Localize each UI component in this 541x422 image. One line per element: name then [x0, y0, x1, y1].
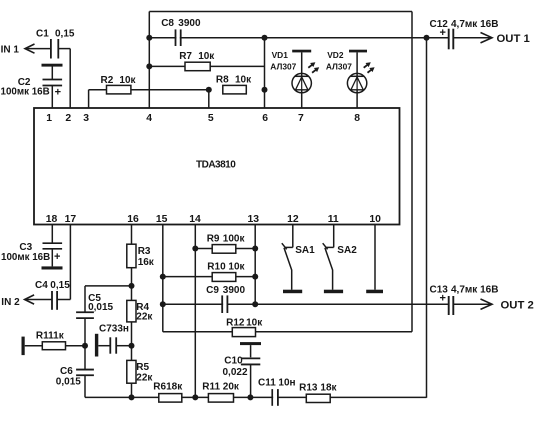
svg-text:4,7мк 16В: 4,7мк 16В — [451, 285, 498, 296]
svg-text:3900: 3900 — [223, 285, 246, 296]
svg-text:R3: R3 — [138, 246, 151, 257]
svg-text:0,015: 0,015 — [88, 302, 113, 313]
svg-text:SA1: SA1 — [295, 245, 315, 256]
svg-text:3: 3 — [83, 113, 89, 124]
svg-text:АЛ307: АЛ307 — [326, 62, 352, 72]
svg-text:17: 17 — [65, 214, 77, 225]
svg-text:16к: 16к — [138, 257, 155, 268]
svg-text:+: + — [55, 87, 61, 99]
svg-text:VD2: VD2 — [327, 50, 344, 60]
svg-text:R5: R5 — [136, 362, 149, 373]
svg-text:R11: R11 — [202, 381, 220, 392]
svg-text:SA2: SA2 — [337, 245, 357, 256]
svg-text:5: 5 — [208, 113, 214, 124]
svg-text:C8: C8 — [161, 18, 174, 29]
svg-text:0,15: 0,15 — [50, 280, 70, 291]
svg-text:R8: R8 — [216, 75, 229, 86]
svg-text:R12: R12 — [226, 318, 245, 329]
svg-text:АЛ307: АЛ307 — [270, 62, 296, 72]
svg-text:IN 1: IN 1 — [1, 44, 20, 55]
svg-text:11: 11 — [328, 214, 339, 225]
svg-text:C11: C11 — [258, 377, 276, 388]
svg-text:100к: 100к — [223, 233, 246, 244]
svg-text:20к: 20к — [223, 381, 240, 392]
svg-text:R10: R10 — [207, 261, 226, 272]
svg-text:R7: R7 — [179, 51, 192, 62]
svg-text:1: 1 — [46, 113, 52, 124]
svg-text:14: 14 — [189, 214, 201, 225]
svg-text:18: 18 — [46, 214, 58, 225]
svg-text:R111к: R111к — [36, 331, 65, 342]
svg-text:22к: 22к — [136, 373, 153, 384]
svg-text:18к: 18к — [320, 382, 337, 393]
svg-text:C4: C4 — [35, 280, 48, 291]
svg-text:3900: 3900 — [178, 18, 201, 29]
svg-text:4,7мк 16В: 4,7мк 16В — [451, 19, 498, 30]
svg-text:R2: R2 — [101, 75, 114, 86]
svg-text:0,15: 0,15 — [55, 28, 75, 39]
svg-text:TDA3810: TDA3810 — [196, 160, 236, 171]
svg-text:8: 8 — [354, 113, 360, 124]
svg-text:C10: C10 — [224, 356, 243, 367]
svg-text:OUT 2: OUT 2 — [501, 300, 534, 312]
svg-text:10к: 10к — [228, 261, 245, 272]
svg-text:R618к: R618к — [153, 382, 183, 393]
svg-text:2: 2 — [65, 113, 71, 124]
svg-text:+: + — [440, 293, 446, 305]
svg-text:100мк 16В: 100мк 16В — [1, 252, 50, 263]
svg-text:13: 13 — [248, 214, 260, 225]
svg-text:15: 15 — [156, 214, 168, 225]
svg-text:10к: 10к — [198, 51, 215, 62]
svg-text:12: 12 — [287, 214, 299, 225]
svg-text:R13: R13 — [299, 382, 318, 393]
svg-text:R9: R9 — [207, 233, 220, 244]
svg-text:100мк 16В: 100мк 16В — [1, 87, 50, 98]
svg-text:10к: 10к — [119, 75, 136, 86]
svg-text:OUT 1: OUT 1 — [497, 33, 530, 45]
svg-text:C1: C1 — [36, 28, 49, 39]
svg-text:10: 10 — [369, 214, 381, 225]
svg-text:+: + — [440, 27, 446, 39]
svg-text:C6: C6 — [60, 366, 73, 377]
svg-text:0,022: 0,022 — [223, 367, 248, 378]
svg-text:4: 4 — [146, 113, 152, 124]
svg-text:0,015: 0,015 — [56, 377, 81, 388]
svg-text:+: + — [54, 251, 60, 263]
svg-text:IN 2: IN 2 — [1, 297, 20, 308]
svg-text:VD1: VD1 — [272, 50, 289, 60]
svg-text:7: 7 — [298, 113, 304, 124]
svg-text:16: 16 — [127, 214, 139, 225]
svg-text:22к: 22к — [136, 312, 153, 323]
svg-text:10к: 10к — [246, 318, 263, 329]
svg-text:10к: 10к — [235, 75, 252, 86]
svg-text:C733н: C733н — [99, 323, 129, 334]
svg-text:6: 6 — [262, 113, 268, 124]
svg-text:10н: 10н — [278, 377, 295, 388]
svg-text:C9: C9 — [206, 285, 219, 296]
